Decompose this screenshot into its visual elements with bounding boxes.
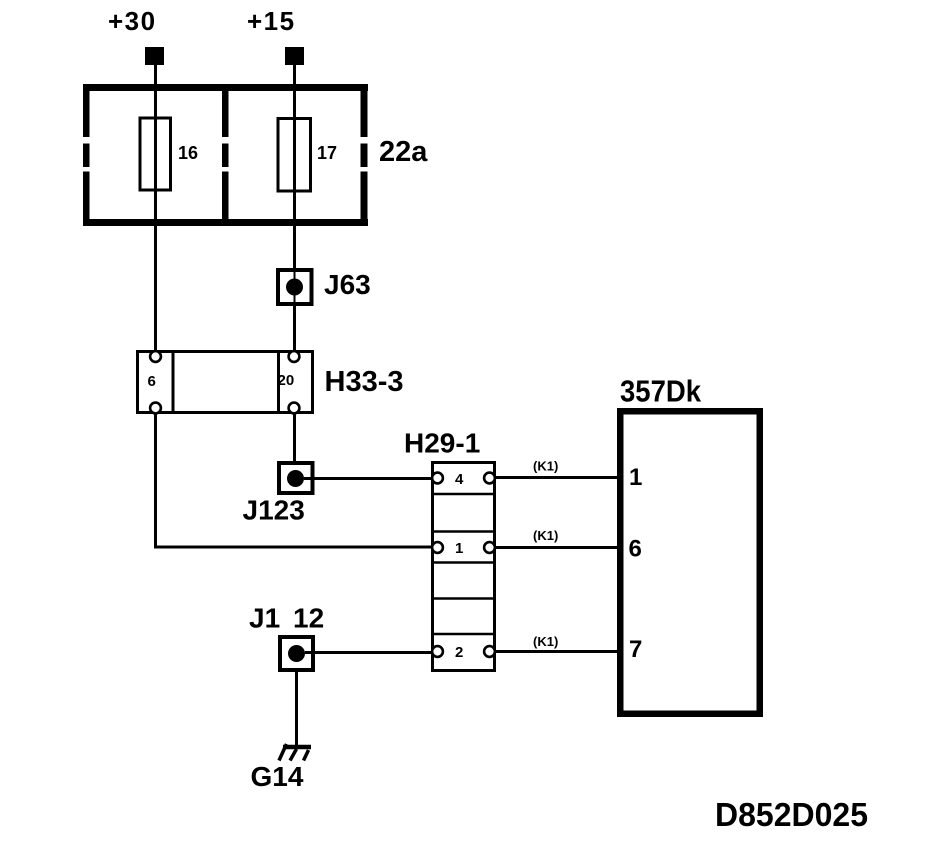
svg-text:2: 2 [455,644,463,661]
H33-3 pin 20 top circle [289,351,300,362]
svg-text:6: 6 [629,536,642,563]
H33-3 pin 6 top circle [150,351,161,362]
svg-text:H33-3: H33-3 [325,366,404,398]
H29-1 pin 1 left circle [432,542,443,553]
wire J63 to H33-3 pin 20 [293,304,296,351]
svg-text:(K1): (K1) [533,459,558,474]
H29-1 pin 4 left circle [432,473,443,484]
svg-text:G14: G14 [251,761,304,792]
connector H29-1 [431,463,496,671]
svg-text:J123: J123 [243,495,305,526]
H29-1 pin 4 right circle [484,473,495,484]
H29-1 pin 2 left circle [432,646,443,657]
wire H29-1 pin 2 to 357Dk pin 7 [495,650,618,653]
svg-text:6: 6 [148,373,156,390]
ground G14 symbol [279,744,311,761]
wire H33-3 pin 20 to J123 [293,414,296,461]
fuse box 22a outline [83,84,368,226]
svg-text:(K1): (K1) [533,528,558,543]
wire fuse 16 to H33-3 pin 6 [154,190,157,351]
connector J1 pin 12 [280,637,313,670]
wire J1 to H29-1 pin 2 [305,651,432,654]
wire from +15 terminal to fuse 17 [293,65,296,118]
wire fuse 17 to J63 [293,191,296,268]
svg-text:H29-1: H29-1 [404,428,480,459]
wire H29-1 pin 4 to 357Dk pin 1 [495,476,618,479]
svg-text:1: 1 [629,464,642,491]
wire J1 to ground [295,670,298,745]
splice J123 [279,463,313,493]
svg-text:7: 7 [629,636,642,663]
svg-text:1: 1 [455,540,463,557]
node +15 terminal [285,47,304,65]
control unit 357Dk [620,411,760,714]
H33-3 pin 20 bottom circle [289,403,300,414]
svg-text:357Dk: 357Dk [620,374,702,409]
svg-text:+15: +15 [247,6,296,36]
svg-text:16: 16 [178,143,198,163]
splice J63 [278,270,312,304]
wire H29-1 pin 1 to 357Dk pin 6 [495,546,618,549]
svg-text:22a: 22a [379,136,428,168]
wire J123 to H29-1 pin 4 [304,477,432,480]
connector H33-3 [138,352,313,413]
svg-text:+30: +30 [108,6,157,36]
svg-text:(K1): (K1) [533,634,558,649]
connector J1 pin 12 label [249,603,324,634]
svg-text:J1: J1 [249,603,280,634]
wire H33-3 pin 6 to H29-1 pin 1 [156,414,433,547]
fuse 16 [140,118,171,190]
H29-1 pin 2 right circle [484,646,495,657]
svg-text:J63: J63 [324,269,371,300]
H29-1 pin 1 right circle [484,542,495,553]
svg-text:D852D025: D852D025 [715,796,868,833]
svg-text:17: 17 [317,143,337,163]
svg-text:4: 4 [455,471,464,488]
node +30 terminal [145,47,164,65]
fuse 17 [278,119,311,192]
svg-text:20: 20 [278,372,295,389]
wire from +30 terminal to fuse 16 [154,65,157,118]
H33-3 pin 6 bottom circle [150,403,161,414]
svg-text:12: 12 [293,603,324,634]
